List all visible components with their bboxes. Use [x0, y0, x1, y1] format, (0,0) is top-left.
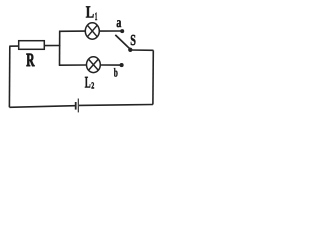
battery negative plate (short thick)	[75, 102, 77, 110]
wire bottom right segment	[79, 104, 153, 107]
wire junction vertical	[59, 31, 61, 66]
wire junction to lamp L2	[59, 64, 87, 66]
wire junction to lamp L1	[59, 30, 86, 32]
wire right vertical	[152, 50, 154, 104]
switch pivot (dot)	[128, 48, 132, 52]
svg-text:R: R	[26, 50, 35, 71]
lamp L2	[87, 57, 101, 73]
svg-text:b: b	[114, 66, 118, 80]
wire lamp L2 to contact b	[101, 64, 120, 66]
wire top-left corner to resistor	[9, 45, 18, 47]
label L1	[86, 2, 98, 23]
wire resistor to junction	[44, 45, 60, 47]
contact b (dot)	[120, 63, 124, 67]
wire lamp L1 to contact a	[99, 30, 120, 32]
wire bottom left segment	[9, 106, 75, 108]
wire switch pivot to right edge	[130, 49, 153, 51]
label L2	[85, 74, 95, 92]
svg-text:1: 1	[95, 11, 98, 23]
svg-text:L: L	[86, 2, 94, 21]
contact a (dot)	[120, 29, 124, 33]
battery positive plate (tall thin)	[77, 99, 79, 113]
resistor R	[19, 41, 45, 50]
wire left vertical	[8, 46, 10, 107]
switch S lever	[115, 35, 130, 49]
svg-text:a: a	[116, 15, 122, 31]
lamp L1	[85, 23, 99, 39]
svg-text:S: S	[130, 32, 136, 49]
svg-text:2: 2	[91, 81, 94, 91]
svg-text:L: L	[85, 74, 91, 92]
